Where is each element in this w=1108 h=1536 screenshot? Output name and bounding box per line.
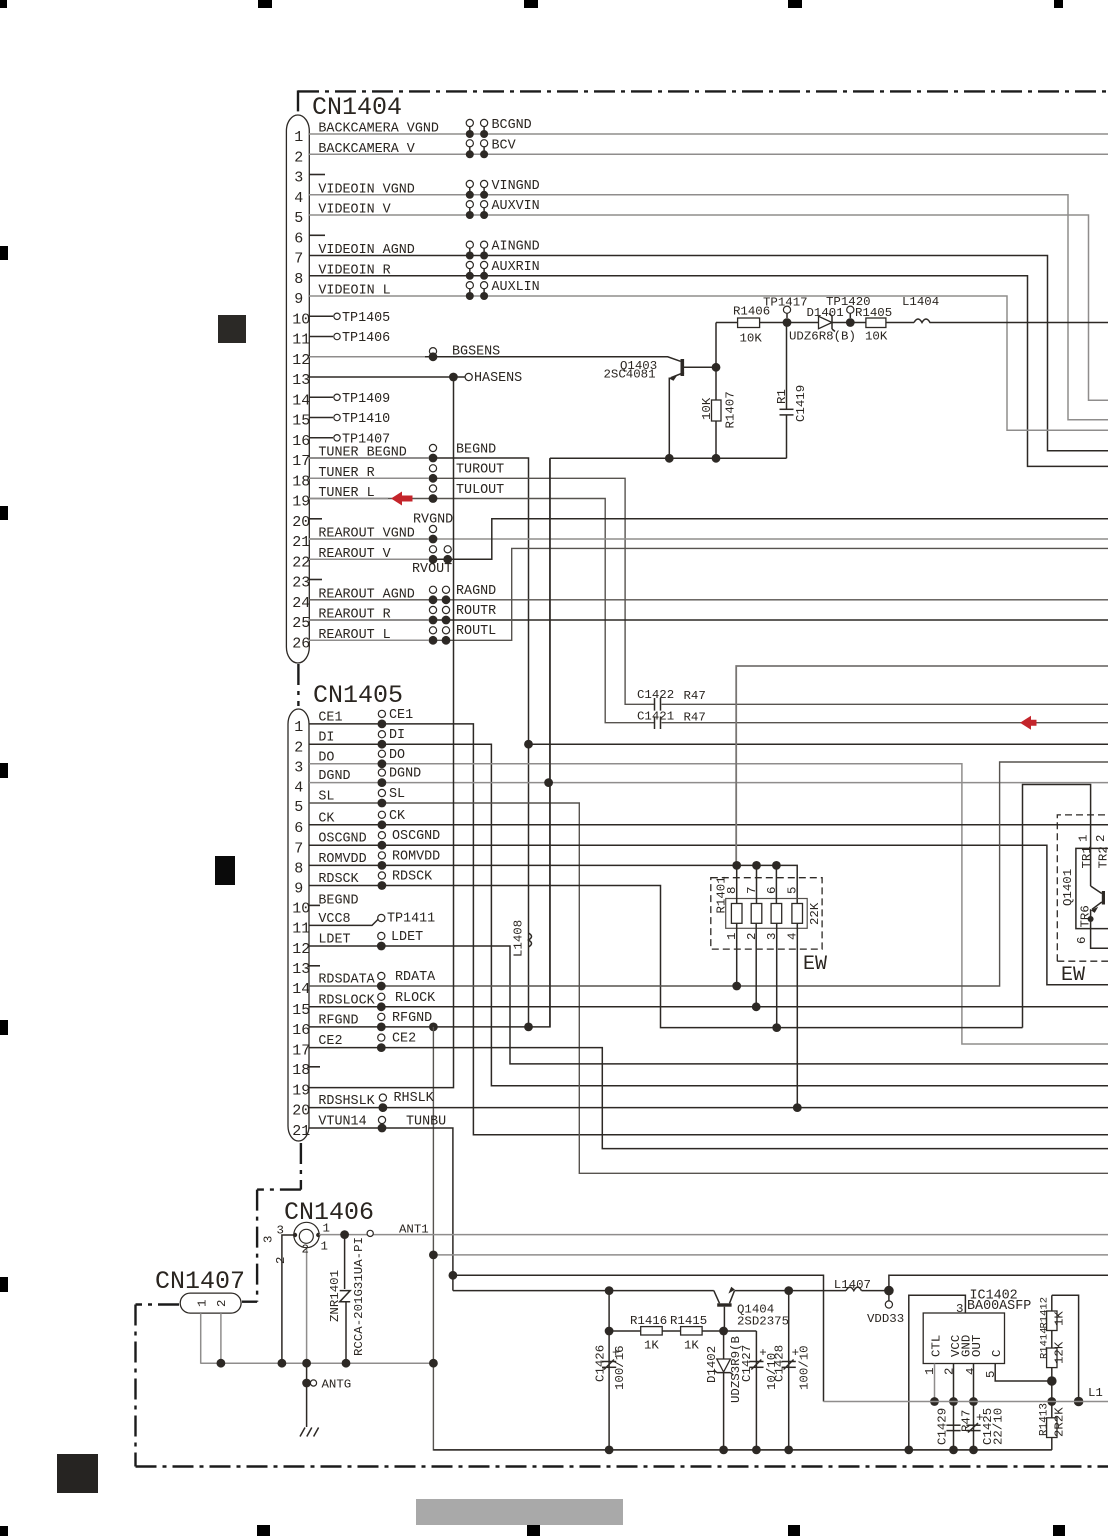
svg-text:R1405: R1405 bbox=[855, 306, 892, 320]
svg-text:RDSLOCK: RDSLOCK bbox=[318, 993, 375, 1008]
svg-text:C1427: C1427 bbox=[740, 1345, 754, 1382]
svg-text:2: 2 bbox=[294, 149, 303, 166]
registration mark left 5 bbox=[0, 1277, 8, 1292]
svg-text:TP1411: TP1411 bbox=[387, 912, 435, 927]
capacitor C1427 bbox=[755, 1331, 757, 1450]
inductor L1408 on vertical bbox=[529, 933, 532, 947]
svg-text:TP1410: TP1410 bbox=[342, 412, 390, 427]
svg-text:5: 5 bbox=[786, 887, 800, 894]
svg-text:TR6: TR6 bbox=[1079, 905, 1093, 927]
ground rail BEGND right section bbox=[550, 457, 787, 459]
resistor network R1401 inner box bbox=[726, 899, 808, 929]
svg-text:SL: SL bbox=[318, 790, 334, 805]
svg-text:7: 7 bbox=[294, 251, 303, 268]
test point TP1417 bbox=[783, 318, 792, 327]
svg-text:RFGND: RFGND bbox=[392, 1011, 432, 1026]
alignment square bottom-left bbox=[57, 1454, 98, 1493]
svg-text:8: 8 bbox=[294, 271, 303, 288]
svg-text:R1407: R1407 bbox=[724, 391, 738, 428]
svg-text:RDSDATA: RDSDATA bbox=[318, 973, 375, 988]
svg-text:DO: DO bbox=[318, 750, 334, 765]
resistor R1412 bbox=[1051, 1295, 1053, 1311]
test point TP1420 bbox=[846, 318, 855, 327]
svg-text:VIDEOIN R: VIDEOIN R bbox=[318, 263, 390, 278]
connector CN1405 body bbox=[288, 709, 309, 1141]
diode D1401 zener bbox=[787, 322, 819, 324]
dash-dot border left vertical bbox=[134, 1305, 136, 1467]
svg-text:12: 12 bbox=[292, 941, 310, 958]
test point VDD33 bbox=[888, 1295, 890, 1301]
resistor R1406 bbox=[716, 322, 738, 324]
svg-text:AUXRIN: AUXRIN bbox=[492, 260, 540, 275]
red arrow on C1421 line bbox=[1020, 716, 1037, 730]
svg-text:1K: 1K bbox=[1053, 1311, 1067, 1326]
svg-text:D1402: D1402 bbox=[705, 1346, 719, 1383]
wire Q1401 pin TR1 vertical bbox=[1091, 849, 1108, 948]
dash-dot border corner into CN1407 bbox=[242, 1300, 257, 1302]
diode D1402 zener bbox=[723, 1331, 725, 1359]
capacitor C1429 bbox=[946, 1424, 960, 1426]
svg-text:SL: SL bbox=[389, 787, 405, 802]
registration mark left 3 bbox=[0, 763, 8, 778]
dash-dot border below CN1405 bbox=[300, 1143, 302, 1190]
svg-text:CE1: CE1 bbox=[389, 708, 413, 723]
svg-text:VIDEOIN L: VIDEOIN L bbox=[318, 284, 390, 299]
svg-text:OUT: OUT bbox=[970, 1335, 984, 1357]
svg-text:18: 18 bbox=[292, 473, 310, 490]
Q1401 inner box bbox=[1076, 848, 1108, 928]
svg-text:18: 18 bbox=[292, 1062, 310, 1079]
svg-text:DI: DI bbox=[389, 728, 405, 743]
svg-text:RCCA-201G31UA-PI: RCCA-201G31UA-PI bbox=[352, 1237, 366, 1356]
svg-text:16: 16 bbox=[292, 433, 310, 450]
wire pin25 REAROUT R bbox=[309, 619, 1108, 621]
svg-text:BCV: BCV bbox=[492, 138, 516, 153]
svg-text:6: 6 bbox=[294, 230, 303, 247]
svg-text:20: 20 bbox=[292, 1103, 310, 1120]
svg-text:R1401: R1401 bbox=[715, 876, 729, 913]
resistor R1405 bbox=[850, 322, 866, 324]
svg-text:ROMVDD: ROMVDD bbox=[318, 852, 366, 867]
wire pin19 TUNER L / TULOUT chain bbox=[309, 499, 654, 723]
resistor R1407 bbox=[715, 367, 717, 400]
svg-text:LDET: LDET bbox=[318, 933, 350, 948]
svg-text:AUXVIN: AUXVIN bbox=[492, 199, 540, 214]
svg-text:11: 11 bbox=[292, 332, 310, 349]
svg-text:TP1406: TP1406 bbox=[342, 331, 390, 346]
node AUXLIN taps bbox=[466, 282, 473, 289]
svg-text:1: 1 bbox=[1077, 835, 1091, 842]
alignment square mid 2 bbox=[215, 856, 235, 885]
svg-text:9: 9 bbox=[294, 881, 303, 898]
svg-text:7: 7 bbox=[294, 840, 303, 857]
connector CN1406 coax inner bbox=[299, 1229, 313, 1243]
node ANT1 stub circle bbox=[367, 1230, 373, 1236]
svg-text:VDD33: VDD33 bbox=[867, 1312, 904, 1326]
node BCGND taps bbox=[466, 119, 473, 126]
wire pin13 HASENS bbox=[309, 376, 465, 378]
svg-text:10: 10 bbox=[292, 311, 310, 328]
wire CN1405 pin10 stub BEGND bbox=[309, 904, 320, 906]
wire pin17 TUNER BEGND bbox=[309, 458, 529, 1027]
svg-text:ANT1: ANT1 bbox=[399, 1223, 429, 1237]
wire CN1405 pin9 RDSCK chain bbox=[309, 886, 1023, 1028]
wire pin12 BGSENS bbox=[309, 357, 681, 362]
svg-text:1K: 1K bbox=[644, 1339, 659, 1353]
svg-text:BGSENS: BGSENS bbox=[452, 345, 500, 360]
transistor network Q1401 dashed box EW right bbox=[1057, 815, 1108, 961]
dash-dot border top bbox=[298, 90, 1108, 92]
svg-text:C1422: C1422 bbox=[637, 688, 674, 702]
svg-text:CN1404: CN1404 bbox=[312, 93, 402, 122]
inductor L1404 bbox=[914, 319, 1108, 323]
wire pin2 BACKCAMERA V bbox=[309, 153, 1108, 155]
transistor Q1403 bbox=[681, 359, 685, 376]
svg-text:6: 6 bbox=[765, 887, 779, 894]
node AUXVIN taps bbox=[466, 201, 473, 208]
svg-text:R1416: R1416 bbox=[630, 1314, 667, 1328]
resistor R1401 element 2 bbox=[751, 904, 762, 924]
test point TP1406 bbox=[309, 336, 333, 338]
svg-text:RDSCK: RDSCK bbox=[392, 870, 433, 885]
svg-text:OSCGND: OSCGND bbox=[392, 829, 440, 844]
wire CN1405 pin16 RFGND bbox=[309, 458, 550, 1027]
svg-text:ROUTL: ROUTL bbox=[456, 624, 496, 639]
svg-text:HASENS: HASENS bbox=[474, 371, 522, 386]
capacitor C1419 with R1 bbox=[786, 323, 788, 410]
svg-text:L1408: L1408 bbox=[512, 920, 526, 957]
svg-text:17: 17 bbox=[292, 453, 310, 470]
svg-text:1: 1 bbox=[323, 1222, 330, 1236]
svg-text:EW: EW bbox=[803, 953, 827, 976]
svg-text:12: 12 bbox=[292, 352, 310, 369]
test point TP1405 bbox=[309, 315, 333, 317]
svg-text:11: 11 bbox=[292, 921, 310, 938]
svg-text:2: 2 bbox=[294, 739, 303, 756]
svg-text:7: 7 bbox=[745, 887, 759, 894]
transistor Q1404 bbox=[717, 1303, 731, 1306]
svg-text:3: 3 bbox=[277, 1224, 284, 1238]
wire CN1405 pin17 CE2 chain bbox=[309, 1048, 1108, 1149]
svg-text:21: 21 bbox=[292, 1123, 310, 1140]
wire CN1405 pin3 DO chain bbox=[309, 764, 1108, 1044]
svg-text:R1415: R1415 bbox=[670, 1314, 707, 1328]
svg-text:OSCGND: OSCGND bbox=[318, 832, 366, 847]
svg-text:19: 19 bbox=[292, 494, 310, 511]
wire pin8 VIDEOIN R staircase bbox=[309, 276, 1108, 467]
node ZNR top bbox=[340, 1230, 349, 1239]
wire CN1405 pin13 stub bbox=[309, 965, 320, 967]
wire gray bus to right edge bbox=[824, 1401, 1108, 1403]
transistor Q1401 symbol bbox=[1102, 891, 1105, 905]
svg-text:CE2: CE2 bbox=[392, 1032, 416, 1047]
svg-text:2: 2 bbox=[215, 1300, 229, 1307]
svg-text:CE2: CE2 bbox=[318, 1034, 342, 1049]
registration mark bottom 5 bbox=[1053, 1525, 1065, 1536]
svg-text:4: 4 bbox=[964, 1368, 978, 1375]
svg-text:25: 25 bbox=[292, 615, 310, 632]
resistor R1416 bbox=[609, 1330, 641, 1332]
svg-text:CE1: CE1 bbox=[318, 710, 342, 725]
svg-text:16: 16 bbox=[292, 1022, 310, 1039]
dash-dot border left of CN1407 bbox=[136, 1303, 180, 1305]
svg-text:REAROUT AGND: REAROUT AGND bbox=[318, 587, 414, 602]
svg-text:17: 17 bbox=[292, 1043, 310, 1060]
gray footer bar bbox=[416, 1499, 623, 1525]
wire CN1405 pin5 SL chain bbox=[309, 803, 1108, 1173]
svg-text:BEGND: BEGND bbox=[318, 893, 358, 908]
wire CN1407 pin2 bbox=[220, 1313, 222, 1364]
wire from rail down bbox=[549, 458, 551, 1027]
registration mark bottom 2 bbox=[257, 1525, 270, 1536]
svg-text:BA00ASFP: BA00ASFP bbox=[967, 1299, 1031, 1314]
wire pin1 BACKCAMERA VGND bbox=[309, 133, 1108, 135]
wire pin18 TUNER R / TUROUT chain bbox=[309, 478, 654, 704]
svg-text:15: 15 bbox=[292, 1002, 310, 1019]
svg-text:22/10: 22/10 bbox=[992, 1408, 1006, 1445]
svg-text:20: 20 bbox=[292, 514, 310, 531]
svg-text:1: 1 bbox=[321, 1240, 328, 1254]
dash-dot border jog horizontal bbox=[257, 1188, 301, 1190]
wire CN1407 pin1 bbox=[200, 1313, 202, 1364]
test point TP1411 on pin11 VCC8 bbox=[309, 919, 378, 925]
svg-text:RFGND: RFGND bbox=[318, 1013, 358, 1028]
registration mark top 3 bbox=[524, 0, 538, 8]
wire pin4 VIDEOIN VGND staircase bbox=[309, 195, 1108, 420]
svg-text:3: 3 bbox=[262, 1236, 276, 1243]
svg-text:RVOUT: RVOUT bbox=[412, 562, 452, 577]
svg-text:6: 6 bbox=[294, 820, 303, 837]
svg-text:ZNR1401: ZNR1401 bbox=[328, 1270, 342, 1322]
svg-text:2: 2 bbox=[274, 1257, 288, 1264]
resistor R1401 element 3 bbox=[771, 904, 782, 924]
R1401 bottom pin wires bbox=[736, 923, 738, 986]
supply rail with Q1404 bbox=[453, 1290, 714, 1292]
wire IC1402 pin5 C bbox=[995, 1364, 1052, 1382]
wire IC1402 pin1 bbox=[934, 1364, 936, 1402]
svg-text:TR1: TR1 bbox=[1080, 846, 1094, 868]
svg-text:13: 13 bbox=[292, 961, 310, 978]
wire pin26 REAROUT L chain bbox=[309, 548, 1108, 640]
svg-text:C1428: C1428 bbox=[773, 1345, 787, 1382]
node L1407 out bbox=[884, 1286, 894, 1296]
test point TP1407 bbox=[309, 437, 333, 439]
svg-text:EW: EW bbox=[1061, 964, 1085, 987]
svg-text:15: 15 bbox=[292, 413, 310, 430]
svg-text:9: 9 bbox=[294, 291, 303, 308]
svg-text:26: 26 bbox=[292, 635, 310, 652]
alignment square mid 1 bbox=[218, 315, 246, 343]
wire R1412 top link bbox=[1052, 1295, 1079, 1401]
svg-text:10: 10 bbox=[292, 901, 310, 918]
svg-text:5: 5 bbox=[294, 799, 303, 816]
registration mark bottom-left bbox=[0, 1526, 8, 1536]
svg-text:BEGND: BEGND bbox=[456, 442, 496, 457]
svg-text:VCC8: VCC8 bbox=[318, 912, 350, 927]
wire CN1405 pin14 RDSDATA / RDATA chain bbox=[309, 762, 1108, 986]
svg-text:DGND: DGND bbox=[318, 769, 350, 784]
wire IC1402 pin4 with R47 C1425 bbox=[973, 1364, 975, 1450]
svg-text:L1404: L1404 bbox=[902, 295, 939, 309]
wire Q1404 base bbox=[723, 1307, 725, 1331]
dash-dot border top-left corner drop bbox=[297, 90, 299, 113]
resistor R1415 bbox=[662, 1330, 680, 1332]
wire to right edge upper bbox=[889, 1275, 1108, 1290]
svg-text:TUNBU: TUNBU bbox=[406, 1115, 446, 1130]
svg-text:RDSHSLK: RDSHSLK bbox=[318, 1094, 375, 1109]
test point TP1410 bbox=[309, 417, 333, 419]
svg-text:TUROUT: TUROUT bbox=[456, 463, 504, 478]
wire pin5 VIDEOIN V staircase bbox=[309, 215, 1108, 400]
wire pin9 VIDEOIN L staircase bbox=[309, 296, 1108, 430]
varistor ZNR1401 bbox=[344, 1235, 346, 1289]
svg-text:10K: 10K bbox=[700, 397, 714, 420]
svg-text:CN1405: CN1405 bbox=[313, 681, 403, 710]
wire CN1405 pin21 VTUN14 / TUNBU chain bbox=[309, 1128, 453, 1291]
svg-text:23: 23 bbox=[292, 575, 310, 592]
wire pin3 stub bbox=[309, 174, 325, 176]
svg-text:ROUTR: ROUTR bbox=[456, 604, 496, 619]
wire BEGND vertical tap to right edge bbox=[529, 743, 1108, 745]
inductor L1407 bbox=[846, 1287, 862, 1291]
svg-text:RAGND: RAGND bbox=[456, 584, 496, 599]
svg-text:DI: DI bbox=[318, 731, 334, 746]
test point TP1409 bbox=[309, 396, 333, 398]
wire CN1405 pin12 LDET chain bbox=[309, 946, 1108, 1064]
wire pin7 VIDEOIN AGND staircase bbox=[309, 256, 1108, 451]
svg-text:10K: 10K bbox=[865, 330, 888, 344]
svg-text:UDZ6R8(B): UDZ6R8(B) bbox=[789, 330, 856, 344]
connector CN1404 body bbox=[286, 115, 309, 663]
svg-text:TR2: TR2 bbox=[1097, 846, 1108, 868]
resistor network R1401 dashed box EW bbox=[711, 878, 822, 949]
svg-text:VIDEOIN V: VIDEOIN V bbox=[318, 203, 390, 218]
svg-text:BCGND: BCGND bbox=[492, 118, 532, 133]
svg-text:VINGND: VINGND bbox=[492, 179, 540, 194]
svg-text:14: 14 bbox=[292, 392, 310, 409]
resistor R1401 element 1 bbox=[731, 904, 742, 924]
svg-text:1: 1 bbox=[294, 719, 303, 736]
wire CN1405 pin4 DGND bbox=[309, 782, 1108, 784]
resistor R1414 bbox=[1051, 1331, 1053, 1349]
svg-text:DO: DO bbox=[389, 748, 405, 763]
svg-text:13: 13 bbox=[292, 372, 310, 389]
wire segment DO-chain upper right bbox=[1023, 785, 1091, 1028]
registration mark left 2 bbox=[0, 506, 8, 520]
svg-text:12K: 12K bbox=[1053, 1341, 1067, 1364]
svg-text:14: 14 bbox=[292, 981, 310, 998]
node ANTG tap bbox=[306, 1363, 308, 1427]
wire IC1402 pin2 with C1429 bbox=[953, 1364, 955, 1450]
svg-text:3: 3 bbox=[294, 759, 303, 776]
wire CN1405 pin15 RDSLOCK / RLOCK bbox=[309, 1006, 1108, 1008]
svg-text:RLOCK: RLOCK bbox=[395, 991, 436, 1006]
svg-text:L1407: L1407 bbox=[834, 1278, 871, 1292]
svg-text:LDET: LDET bbox=[391, 930, 423, 945]
svg-text:CK: CK bbox=[389, 809, 406, 824]
svg-text:AINGND: AINGND bbox=[492, 240, 540, 255]
svg-text:R47: R47 bbox=[684, 711, 706, 725]
wire pin6 stub bbox=[309, 234, 325, 236]
capacitor C1421 bbox=[654, 716, 656, 729]
red arrow on TUNER L bbox=[391, 492, 413, 506]
registration mark left 1 bbox=[0, 246, 8, 260]
svg-text:R1412: R1412 bbox=[1039, 1297, 1051, 1329]
node AUXRIN taps bbox=[466, 261, 473, 268]
CN1404 pin numbers bbox=[292, 129, 310, 652]
svg-text:RHSLK: RHSLK bbox=[394, 1091, 435, 1106]
registration mark bottom 4 bbox=[788, 1525, 800, 1536]
svg-text:2SD2375: 2SD2375 bbox=[737, 1315, 789, 1329]
resistor R1401 element 4 bbox=[792, 904, 803, 924]
svg-text:CTL: CTL bbox=[930, 1335, 944, 1357]
svg-text:TP1417: TP1417 bbox=[763, 295, 808, 309]
svg-text:C1426: C1426 bbox=[594, 1345, 608, 1382]
svg-text:ROMVDD: ROMVDD bbox=[392, 849, 440, 864]
svg-text:100/16: 100/16 bbox=[613, 1345, 627, 1390]
gray pin lead segments bbox=[309, 357, 429, 641]
wire CN1405 pin18 stub bbox=[309, 1066, 320, 1068]
svg-text:R1414: R1414 bbox=[1039, 1327, 1051, 1359]
registration mark top 2 bbox=[258, 0, 272, 8]
registration mark bottom 3 bbox=[527, 1525, 540, 1536]
svg-text:R47: R47 bbox=[684, 689, 706, 703]
capacitor C1422 bbox=[654, 698, 656, 711]
svg-text:L1: L1 bbox=[1088, 1386, 1103, 1400]
svg-text:ANTG: ANTG bbox=[322, 1378, 352, 1392]
wire CN1405 pin7 OSCGND chain bbox=[309, 845, 1108, 985]
svg-text:VIDEOIN VGND: VIDEOIN VGND bbox=[318, 182, 414, 197]
wire CN1406 pin1 / ANT1 bbox=[319, 1234, 1108, 1236]
svg-text:100/10: 100/10 bbox=[798, 1345, 812, 1390]
connector CN1406 coax outer bbox=[294, 1222, 319, 1247]
wire net from R1401 area to right edge bbox=[736, 666, 1108, 865]
svg-text:5: 5 bbox=[294, 210, 303, 227]
registration mark left 4 bbox=[0, 1020, 8, 1035]
svg-text:2: 2 bbox=[1094, 835, 1108, 842]
node AINGND taps bbox=[466, 241, 473, 248]
svg-text:21: 21 bbox=[292, 534, 310, 551]
svg-text:8: 8 bbox=[294, 861, 303, 878]
svg-text:C1419: C1419 bbox=[794, 385, 808, 422]
svg-text:CK: CK bbox=[318, 811, 335, 826]
svg-text:R1413: R1413 bbox=[1039, 1403, 1051, 1436]
svg-text:C1421: C1421 bbox=[637, 710, 674, 724]
wire CN1406 pin2 bbox=[306, 1248, 308, 1362]
dash-dot border below CN1404 bbox=[297, 664, 299, 706]
connector CN1407 body bbox=[180, 1293, 241, 1313]
svg-text:TULOUT: TULOUT bbox=[456, 483, 504, 498]
node BCV taps bbox=[466, 140, 473, 147]
dash-dot border left of CN1406 bbox=[256, 1190, 258, 1302]
wire pin23 stub bbox=[309, 579, 322, 581]
svg-text:R47: R47 bbox=[960, 1410, 974, 1432]
wire CN1405 pin6 CK bbox=[309, 824, 1108, 826]
svg-text:24: 24 bbox=[292, 595, 310, 612]
svg-text:1: 1 bbox=[196, 1300, 210, 1307]
svg-text:R1: R1 bbox=[775, 389, 789, 404]
ground symbol bbox=[300, 1428, 319, 1437]
IC U IC1402 box bbox=[923, 1313, 1004, 1364]
registration mark top 5 bbox=[1054, 0, 1063, 8]
svg-text:CN1407: CN1407 bbox=[155, 1267, 245, 1296]
wire RFGND vertical to ground bbox=[433, 1027, 1051, 1450]
svg-text:10K: 10K bbox=[740, 331, 763, 345]
bottom ground rail bbox=[433, 1449, 1051, 1451]
svg-text:22: 22 bbox=[292, 554, 310, 571]
dash-dot border bottom bbox=[136, 1465, 1108, 1467]
svg-text:VTUN14: VTUN14 bbox=[318, 1115, 366, 1130]
